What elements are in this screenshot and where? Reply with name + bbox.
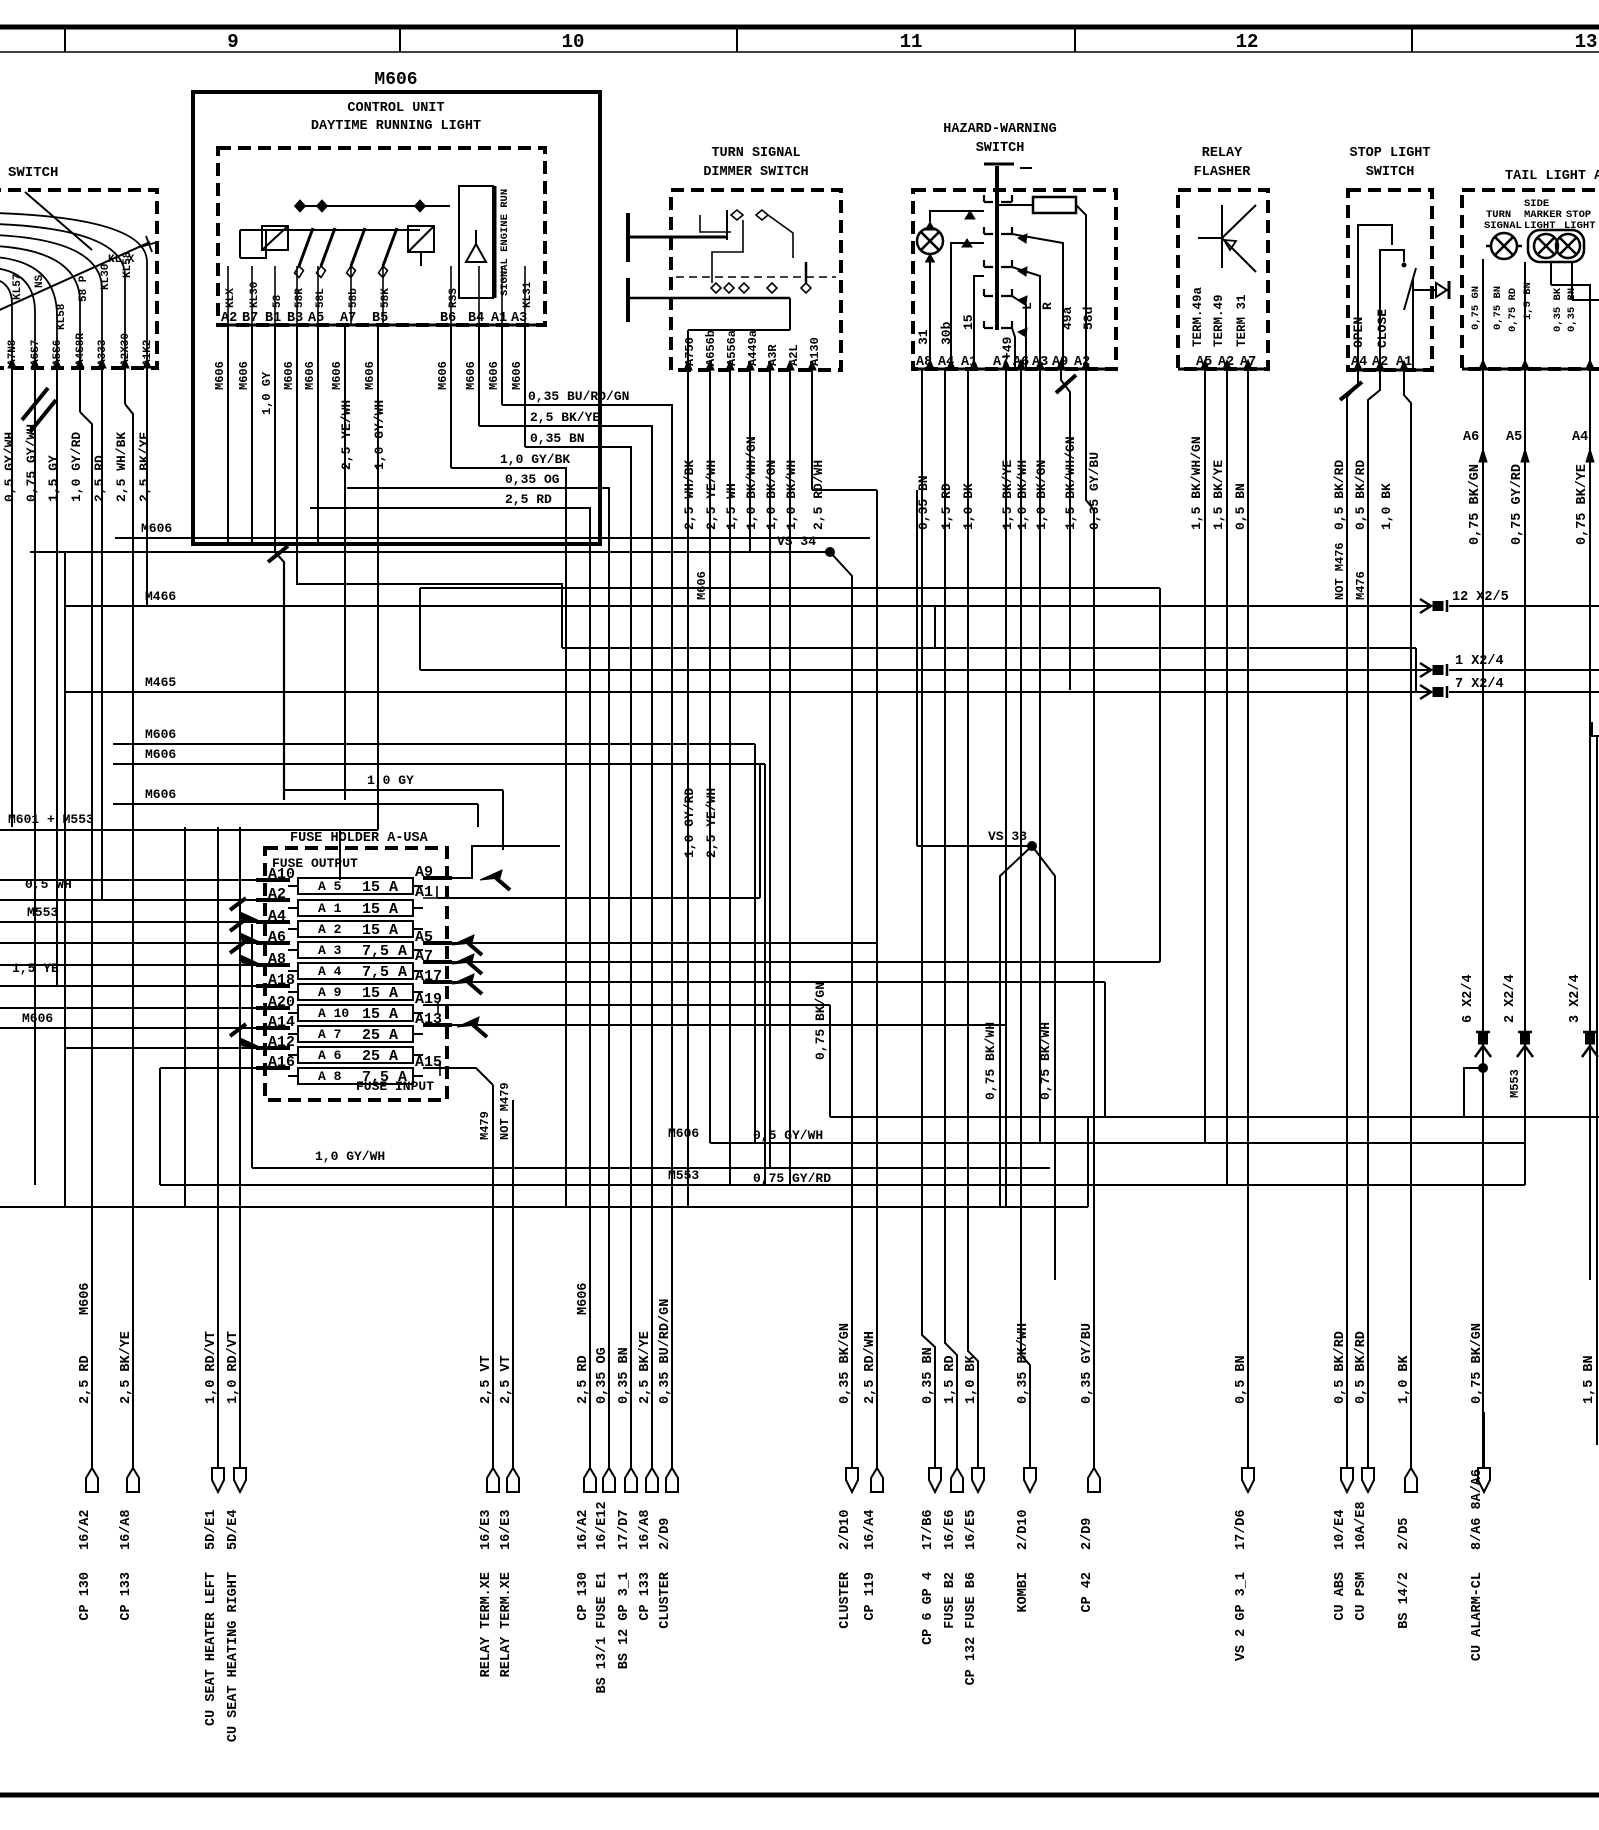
- svg-text:1,0 BK: 1,0 BK: [1397, 1354, 1412, 1404]
- fuse A2 15 A: [298, 921, 413, 937]
- svg-text:16/E6: 16/E6: [943, 1509, 958, 1550]
- turn signal internals: [731, 210, 743, 220]
- terminal 17/D6 VS 2 GP 3_1: [1242, 1468, 1254, 1492]
- svg-text:BS 12 GP 3_1: BS 12 GP 3_1: [617, 1572, 632, 1669]
- svg-text:1,0 GY: 1,0 GY: [260, 371, 274, 415]
- svg-text:0,35 BK/GN: 0,35 BK/GN: [838, 1323, 853, 1404]
- svg-text:M553: M553: [668, 1168, 699, 1183]
- svg-text:STOP LIGHT: STOP LIGHT: [1349, 146, 1430, 161]
- hazard right wires: [1012, 328, 1015, 369]
- svg-text:CP 132 FUSE B6: CP 132 FUSE B6: [964, 1572, 979, 1685]
- svg-text:DIMMER SWITCH: DIMMER SWITCH: [703, 165, 808, 180]
- svg-text:CONTROL UNIT: CONTROL UNIT: [347, 101, 444, 116]
- svg-text:2/D9: 2/D9: [1080, 1518, 1095, 1550]
- stop light switch box: [1348, 190, 1432, 370]
- svg-text:2,5 RD: 2,5 RD: [505, 492, 552, 507]
- svg-text:TERM 31: TERM 31: [1235, 294, 1249, 347]
- svg-text:M606: M606: [213, 361, 227, 390]
- svg-text:CP 130: CP 130: [78, 1572, 93, 1621]
- svg-text:M606: M606: [145, 727, 176, 742]
- svg-text:1,0 BK/GN: 1,0 BK/GN: [1034, 460, 1049, 530]
- svg-text:KL58: KL58: [56, 303, 68, 330]
- svg-text:M606: M606: [145, 747, 176, 762]
- svg-text:BS 14/2: BS 14/2: [1397, 1572, 1412, 1629]
- svg-text:CLOSE: CLOSE: [1375, 309, 1390, 348]
- hazard wires below: [921, 369, 923, 1335]
- svg-text:12 X2/5: 12 X2/5: [1452, 590, 1509, 605]
- svg-text:58L: 58L: [315, 288, 327, 308]
- svg-text:0,35 BN: 0,35 BN: [617, 1347, 632, 1404]
- svg-text:31: 31: [916, 329, 931, 345]
- signal engine run block: [459, 186, 493, 298]
- svg-text:0,5 BK/RD: 0,5 BK/RD: [1353, 460, 1368, 530]
- turn signal dimmer switch box: [671, 190, 841, 370]
- svg-text:M606: M606: [363, 361, 377, 390]
- turn signal wires: [687, 370, 689, 1207]
- left wire verticals: [11, 368, 13, 827]
- svg-text:2,5 RD/WH: 2,5 RD/WH: [811, 460, 826, 530]
- bus full width: [0, 1206, 1088, 1208]
- connector 2 X2/4: [1518, 1031, 1532, 1034]
- svg-text:0,5 WH: 0,5 WH: [25, 877, 72, 892]
- svg-text:FLASHER: FLASHER: [1194, 165, 1252, 180]
- svg-text:0,75 GN: 0,75 GN: [1470, 286, 1482, 330]
- svg-text:1,0 GY/WH: 1,0 GY/WH: [372, 400, 387, 470]
- svg-text:15 A: 15 A: [362, 879, 398, 896]
- svg-text:0,35 BK/WH: 0,35 BK/WH: [1016, 1323, 1031, 1404]
- box fragment right edge: [1592, 722, 1599, 736]
- svg-text:2,5 BK/YE: 2,5 BK/YE: [119, 1331, 134, 1404]
- svg-text:NOT M479: NOT M479: [498, 1082, 512, 1140]
- tail light box: [1462, 190, 1599, 369]
- svg-text:A130: A130: [808, 337, 822, 366]
- tail light lamp turn signal: [1491, 233, 1517, 259]
- svg-text:M601 + M553: M601 + M553: [8, 812, 94, 827]
- fuse A1 15 A: [298, 900, 413, 916]
- svg-text:0,75 BK/GN: 0,75 BK/GN: [1468, 464, 1483, 545]
- fuse A6 25 A: [298, 1047, 413, 1063]
- svg-text:0,35 BU/RD/GN: 0,35 BU/RD/GN: [658, 1299, 673, 1404]
- svg-text:0,75 BN: 0,75 BN: [1492, 286, 1504, 330]
- terminal 17/B6 CP 6 GP 4: [929, 1468, 941, 1492]
- svg-text:A 1: A 1: [318, 901, 342, 916]
- svg-text:VS 34: VS 34: [777, 534, 816, 549]
- svg-text:A 5: A 5: [318, 879, 342, 894]
- wire jog to 2,5 BK/YE: [125, 404, 133, 1468]
- svg-text:0,5 BN: 0,5 BN: [1233, 483, 1248, 530]
- terminal 16/A8 CP 133: [127, 1468, 139, 1492]
- cu contact box: [262, 226, 288, 250]
- svg-text:M606: M606: [282, 361, 296, 390]
- svg-text:2 X2/4: 2 X2/4: [1503, 974, 1518, 1023]
- svg-text:SWITCH: SWITCH: [976, 141, 1025, 156]
- svg-text:KL31: KL31: [522, 281, 534, 308]
- svg-text:7,5 A: 7,5 A: [362, 943, 407, 960]
- tail light wire A5: [1524, 369, 1526, 1185]
- svg-text:M553: M553: [1508, 1069, 1522, 1098]
- fuse output wires right: [423, 846, 560, 878]
- VS34 drop wire: [830, 552, 852, 1468]
- tail light wire A4: [1589, 369, 1591, 1280]
- svg-text:0,35 OG: 0,35 OG: [505, 472, 560, 487]
- turn signal lever 1: [626, 213, 630, 262]
- svg-text:0,75 BK/GN: 0,75 BK/GN: [1470, 1323, 1485, 1404]
- svg-text:2,5 BK/YE: 2,5 BK/YE: [530, 410, 600, 425]
- svg-text:M606: M606: [22, 1011, 53, 1026]
- fuse A9 15 A: [298, 984, 413, 1000]
- svg-text:TAIL LIGHT A: TAIL LIGHT A: [1505, 169, 1599, 184]
- svg-text:0,35 BN: 0,35 BN: [1566, 288, 1578, 332]
- svg-text:0,5 BN: 0,5 BN: [1234, 1355, 1249, 1404]
- svg-text:0,75 BK/GN: 0,75 BK/GN: [813, 982, 828, 1060]
- svg-text:A656b: A656b: [704, 330, 718, 366]
- switch staircase wires: [146, 262, 148, 368]
- bus M606 a: [113, 743, 755, 745]
- svg-text:1,0 BK: 1,0 BK: [964, 1354, 979, 1404]
- svg-text:1,0 BK/WH: 1,0 BK/WH: [1015, 460, 1030, 530]
- svg-text:58: 58: [272, 294, 284, 308]
- svg-text:RELAY TERM.XE: RELAY TERM.XE: [499, 1572, 514, 1677]
- svg-text:2,5 WH/BK: 2,5 WH/BK: [114, 432, 129, 502]
- terminal 8/A6 8A/A6 CU ALARM-CL: [1478, 1468, 1490, 1492]
- svg-text:1,0 GY/RD: 1,0 GY/RD: [69, 432, 84, 502]
- ruler top border: [0, 25, 1599, 30]
- svg-text:16/A2: 16/A2: [78, 1509, 93, 1550]
- svg-text:A3R: A3R: [766, 344, 780, 366]
- svg-text:M606: M606: [576, 1283, 591, 1315]
- svg-text:+49: +49: [1000, 336, 1015, 360]
- svg-text:3 X2/4: 3 X2/4: [1568, 974, 1583, 1023]
- terminal 16/A4 CP 119: [871, 1468, 883, 1492]
- svg-text:15: 15: [961, 314, 976, 330]
- junction on A6 wire: [1479, 1064, 1488, 1073]
- bus M466: [65, 605, 1429, 607]
- svg-text:0,5 BK/RD: 0,5 BK/RD: [1354, 1331, 1369, 1404]
- svg-text:2,5 RD: 2,5 RD: [78, 1355, 93, 1404]
- svg-text:1,5 BN: 1,5 BN: [1582, 1355, 1597, 1404]
- svg-text:0,35 GY/BU: 0,35 GY/BU: [1080, 1323, 1095, 1404]
- relay flasher box: [1178, 190, 1268, 369]
- svg-text:1,5 GY: 1,5 GY: [46, 455, 61, 502]
- svg-text:1,0 GY: 1,0 GY: [367, 773, 414, 788]
- hazard left wires: [951, 243, 984, 369]
- svg-text:M466: M466: [145, 589, 176, 604]
- svg-text:M479: M479: [478, 1111, 492, 1140]
- svg-text:0,35 BN: 0,35 BN: [921, 1347, 936, 1404]
- svg-text:VS 2 GP 3_1: VS 2 GP 3_1: [1234, 1572, 1249, 1661]
- svg-text:NS: NS: [34, 274, 46, 288]
- svg-text:2/D9: 2/D9: [658, 1518, 673, 1550]
- terminal 16/A2 CP 130: [584, 1468, 596, 1492]
- svg-text:KL X: KL X: [108, 254, 135, 266]
- connector 3 X2/4: [1583, 1031, 1597, 1034]
- relay wires below: [1204, 369, 1206, 1143]
- fuse output verticals: [1104, 982, 1106, 1117]
- svg-text:6 X2/4: 6 X2/4: [1461, 974, 1476, 1023]
- svg-text:5D/E4: 5D/E4: [226, 1509, 241, 1550]
- svg-text:M606: M606: [303, 361, 317, 390]
- svg-text:OPEN: OPEN: [1351, 317, 1366, 348]
- svg-text:58 P: 58 P: [78, 275, 90, 302]
- svg-text:1,5 BK/WH/GN: 1,5 BK/WH/GN: [1063, 436, 1078, 530]
- svg-text:M606: M606: [436, 361, 450, 390]
- svg-text:KOMBI: KOMBI: [1016, 1572, 1031, 1613]
- svg-text:11: 11: [900, 31, 923, 53]
- svg-text:16/E3: 16/E3: [479, 1509, 494, 1550]
- svg-text:1,0 RD/VT: 1,0 RD/VT: [226, 1331, 241, 1404]
- cu output wires: [502, 405, 672, 1468]
- svg-text:SIGNAL ENGINE RUN: SIGNAL ENGINE RUN: [499, 189, 511, 296]
- svg-text:0,35 GY/BU: 0,35 GY/BU: [1087, 452, 1102, 530]
- svg-text:8/A6 8A/A6: 8/A6 8A/A6: [1470, 1469, 1485, 1550]
- svg-text:16/E12: 16/E12: [595, 1501, 610, 1550]
- svg-text:TERM.49: TERM.49: [1212, 294, 1226, 347]
- svg-text:M465: M465: [145, 675, 176, 690]
- svg-text:M606: M606: [145, 787, 176, 802]
- hazard warning switch box: [913, 190, 1116, 369]
- svg-text:2,5 VT: 2,5 VT: [479, 1355, 494, 1404]
- svg-text:10: 10: [562, 31, 585, 53]
- svg-text:CU SEAT HEATER LEFT: CU SEAT HEATER LEFT: [204, 1572, 219, 1726]
- svg-text:1,5 BK/YE: 1,5 BK/YE: [1211, 460, 1226, 530]
- svg-text:FUSE HOLDER A-USA: FUSE HOLDER A-USA: [290, 831, 429, 846]
- svg-text:49a: 49a: [1060, 306, 1075, 330]
- fuse A10 15 A: [298, 1005, 413, 1021]
- turn signal lever 2: [626, 278, 630, 322]
- svg-text:A 3: A 3: [318, 943, 342, 958]
- svg-text:A 2: A 2: [318, 922, 342, 937]
- hazard contact rungs: [984, 195, 993, 202]
- svg-text:1,0 GY/RD: 1,0 GY/RD: [682, 788, 697, 858]
- svg-text:CP 130: CP 130: [576, 1572, 591, 1621]
- fuse input wires left: [0, 879, 288, 881]
- svg-text:SWITCH: SWITCH: [8, 165, 58, 181]
- bus M606 upper: [115, 537, 870, 539]
- svg-text:1,0 BK/WH/GN: 1,0 BK/WH/GN: [744, 436, 759, 530]
- svg-text:1,5 RD: 1,5 RD: [939, 483, 954, 530]
- bus line y588: [420, 587, 1160, 589]
- terminal 2/D10 CLUSTER: [846, 1468, 858, 1492]
- terminal 16/A8 CP 133: [646, 1468, 658, 1492]
- tail light wires: [1482, 259, 1484, 369]
- bus 1,0 GY/WH lower: [252, 1167, 1050, 1169]
- svg-text:2/D10: 2/D10: [838, 1509, 853, 1550]
- VS 33 node: [916, 490, 918, 846]
- cu pin stubs: [227, 266, 229, 325]
- svg-text:CLUSTER: CLUSTER: [838, 1571, 853, 1629]
- svg-text:0,35 BN: 0,35 BN: [530, 431, 585, 446]
- tail light double lamp: [1528, 230, 1584, 262]
- misc long verticals: [184, 827, 186, 1207]
- bus M553 0,75 GY/RD: [160, 1184, 1525, 1186]
- svg-text:1 X2/4: 1 X2/4: [1455, 654, 1504, 669]
- svg-text:1,0 BK: 1,0 BK: [961, 483, 976, 530]
- terminal 16/E3 RELAY TERM.XE: [487, 1468, 499, 1492]
- svg-text:1,5 BK/YE: 1,5 BK/YE: [1000, 460, 1015, 530]
- svg-text:1,0 BK/GN: 1,0 BK/GN: [764, 460, 779, 530]
- bus M601+M553: [0, 829, 378, 831]
- svg-text:M606: M606: [668, 1126, 699, 1141]
- svg-text:M606: M606: [330, 361, 344, 390]
- svg-text:0,75 BK/WH: 0,75 BK/WH: [1038, 1022, 1053, 1100]
- svg-text:R: R: [1040, 302, 1055, 310]
- svg-text:M606: M606: [510, 361, 524, 390]
- terminal 16/A2 CP 130: [86, 1468, 98, 1492]
- svg-text:BS 13/1 FUSE E1: BS 13/1 FUSE E1: [595, 1572, 610, 1694]
- fuse A5 15 A: [298, 878, 413, 894]
- fuse input arrows: [240, 912, 262, 922]
- svg-text:25 A: 25 A: [362, 1027, 398, 1044]
- terminal 16/E12 BS 13/1 FUSE E1: [603, 1468, 615, 1492]
- svg-text:1,5 RD: 1,5 RD: [943, 1355, 958, 1404]
- svg-text:1,0 RD/VT: 1,0 RD/VT: [204, 1331, 219, 1404]
- svg-text:DAYTIME RUNNING LIGHT: DAYTIME RUNNING LIGHT: [311, 119, 481, 134]
- cu switch contacts: [299, 228, 313, 266]
- svg-text:2,5 VT: 2,5 VT: [499, 1355, 514, 1404]
- bottom border: [0, 1793, 1599, 1798]
- svg-text:CP 133: CP 133: [638, 1572, 653, 1621]
- svg-text:FUSE B2: FUSE B2: [943, 1572, 958, 1629]
- svg-text:1,5 WH: 1,5 WH: [724, 483, 739, 530]
- svg-text:M476: M476: [1354, 571, 1368, 600]
- control unit M606 outer box: [193, 92, 600, 544]
- bus 1,0 GY: [285, 789, 503, 791]
- svg-text:2,5 WH/BK: 2,5 WH/BK: [682, 460, 697, 530]
- cu pin wires below: [227, 325, 229, 544]
- svg-text:A6: A6: [1463, 430, 1479, 445]
- svg-text:TERM.49a: TERM.49a: [1191, 286, 1205, 347]
- svg-text:CP 119: CP 119: [863, 1572, 878, 1621]
- terminal 2/D5 BS 14/2: [1405, 1468, 1417, 1492]
- cu internal wiring: [297, 205, 450, 207]
- svg-text:16/A8: 16/A8: [119, 1509, 134, 1550]
- svg-text:12: 12: [1236, 31, 1259, 53]
- svg-text:0,5 BK/RD: 0,5 BK/RD: [1333, 1331, 1348, 1404]
- svg-text:KLX: KLX: [225, 288, 237, 308]
- svg-text:TURN SIGNAL: TURN SIGNAL: [711, 146, 800, 161]
- svg-text:0,5 GY/WH: 0,5 GY/WH: [753, 1128, 823, 1143]
- bus 1 X2/4: [419, 588, 421, 670]
- fuse box lower wires: [492, 1085, 494, 1468]
- svg-text:16/A2: 16/A2: [576, 1509, 591, 1550]
- svg-text:A756: A756: [683, 337, 697, 366]
- svg-text:2,5 YE/WH: 2,5 YE/WH: [704, 460, 719, 530]
- svg-text:13: 13: [1575, 31, 1598, 53]
- hazard lamp: [917, 228, 943, 254]
- svg-text:1,5 BK/WH/GN: 1,5 BK/WH/GN: [1189, 436, 1204, 530]
- svg-text:17/D7: 17/D7: [617, 1509, 632, 1550]
- svg-text:SWITCH: SWITCH: [1366, 165, 1415, 180]
- wire B3 cascade: [297, 544, 562, 648]
- svg-text:15 A: 15 A: [362, 985, 398, 1002]
- svg-text:M606: M606: [78, 1283, 93, 1315]
- svg-text:M606: M606: [487, 361, 501, 390]
- svg-text:9: 9: [227, 31, 238, 53]
- bus right y1117: [830, 1116, 1599, 1118]
- svg-text:CU ABS: CU ABS: [1333, 1572, 1348, 1621]
- bus M606 0,5 GY/WH: [710, 1142, 1526, 1144]
- switch wiper: [25, 192, 92, 250]
- terminal 2/D9 CLUSTER: [666, 1468, 678, 1492]
- svg-text:7,5 A: 7,5 A: [362, 964, 407, 981]
- terminal 10/E4 CU ABS: [1341, 1468, 1353, 1492]
- fuse A4 7,5 A: [298, 963, 413, 979]
- svg-text:15 A: 15 A: [362, 922, 398, 939]
- svg-text:A4: A4: [1572, 430, 1588, 445]
- hazard actuator: [984, 163, 1014, 166]
- svg-text:CP 133: CP 133: [119, 1572, 134, 1621]
- svg-text:A 10: A 10: [318, 1006, 349, 1021]
- svg-text:A556a: A556a: [725, 330, 739, 366]
- svg-text:M606: M606: [464, 361, 478, 390]
- terminal stems: [91, 1412, 93, 1468]
- svg-text:KL30: KL30: [249, 282, 261, 308]
- svg-text:A5: A5: [1506, 430, 1522, 445]
- terminal 16/E5 CP 132 FUSE B6: [972, 1468, 984, 1492]
- terminal 16/E3 RELAY TERM.XE: [507, 1468, 519, 1492]
- svg-text:2/D5: 2/D5: [1397, 1518, 1412, 1550]
- svg-text:0,75 GY/WH: 0,75 GY/WH: [24, 424, 39, 502]
- svg-text:0,5 GY/WH: 0,5 GY/WH: [2, 432, 17, 502]
- svg-text:CP 6 GP 4: CP 6 GP 4: [921, 1572, 936, 1645]
- svg-text:15 A: 15 A: [362, 1006, 398, 1023]
- svg-text:2,5 RD/WH: 2,5 RD/WH: [863, 1331, 878, 1404]
- svg-text:HAZARD-WARNING: HAZARD-WARNING: [943, 122, 1056, 137]
- svg-text:58K: 58K: [380, 288, 392, 308]
- svg-text:2,5 YE/WH: 2,5 YE/WH: [339, 400, 354, 470]
- bus M606 b: [113, 763, 765, 765]
- svg-text:L: L: [1020, 302, 1035, 310]
- bus VS 34: [30, 551, 830, 553]
- svg-text:M553: M553: [27, 905, 58, 920]
- svg-text:M606: M606: [237, 361, 251, 390]
- svg-text:58b: 58b: [348, 288, 360, 308]
- svg-text:2/D10: 2/D10: [1016, 1509, 1031, 1550]
- svg-text:58d: 58d: [1081, 307, 1096, 330]
- svg-text:CU PSM: CU PSM: [1354, 1572, 1369, 1621]
- svg-text:A 9: A 9: [318, 985, 342, 1000]
- terminal 2/D9 CP 42: [1088, 1468, 1100, 1492]
- ignition switch box: [0, 190, 157, 368]
- svg-text:2,5 BK/YE: 2,5 BK/YE: [137, 432, 152, 502]
- svg-text:7,5 A: 7,5 A: [362, 1069, 407, 1086]
- svg-text:0,35 BN: 0,35 BN: [916, 475, 931, 530]
- svg-text:1,0 GY/WH: 1,0 GY/WH: [315, 1149, 385, 1164]
- terminal 10A/E8 CU PSM: [1362, 1468, 1374, 1492]
- hazard resistor: [1033, 197, 1076, 213]
- svg-text:2,5 BK/YE: 2,5 BK/YE: [638, 1331, 653, 1404]
- svg-text:A 8: A 8: [318, 1069, 342, 1084]
- svg-text:SIGNAL: SIGNAL: [1484, 220, 1522, 232]
- svg-text:1,0 BK/WH: 1,0 BK/WH: [784, 460, 799, 530]
- svg-text:A 4: A 4: [318, 964, 342, 979]
- svg-text:2,5 RD: 2,5 RD: [576, 1355, 591, 1404]
- svg-text:16/A4: 16/A4: [863, 1509, 878, 1550]
- svg-text:17/B6: 17/B6: [921, 1509, 936, 1550]
- fuse A3 7,5 A: [298, 942, 413, 958]
- terminal 5D/E1 CU SEAT HEATER LEFT: [212, 1468, 224, 1492]
- svg-text:0,35 OG: 0,35 OG: [595, 1347, 610, 1404]
- bus M465 / 7 X2/4: [65, 691, 1429, 693]
- svg-text:16/E3: 16/E3: [499, 1509, 514, 1550]
- svg-text:1,5 YE: 1,5 YE: [12, 961, 59, 976]
- svg-text:2,5 YE/WH: 2,5 YE/WH: [704, 788, 719, 858]
- svg-text:A449a: A449a: [746, 330, 760, 366]
- svg-text:1,0 GY/BK: 1,0 GY/BK: [500, 452, 570, 467]
- svg-text:NOT M476: NOT M476: [1333, 542, 1347, 600]
- svg-text:25 A: 25 A: [362, 1048, 398, 1065]
- fuse pin bold stubs: [256, 878, 290, 882]
